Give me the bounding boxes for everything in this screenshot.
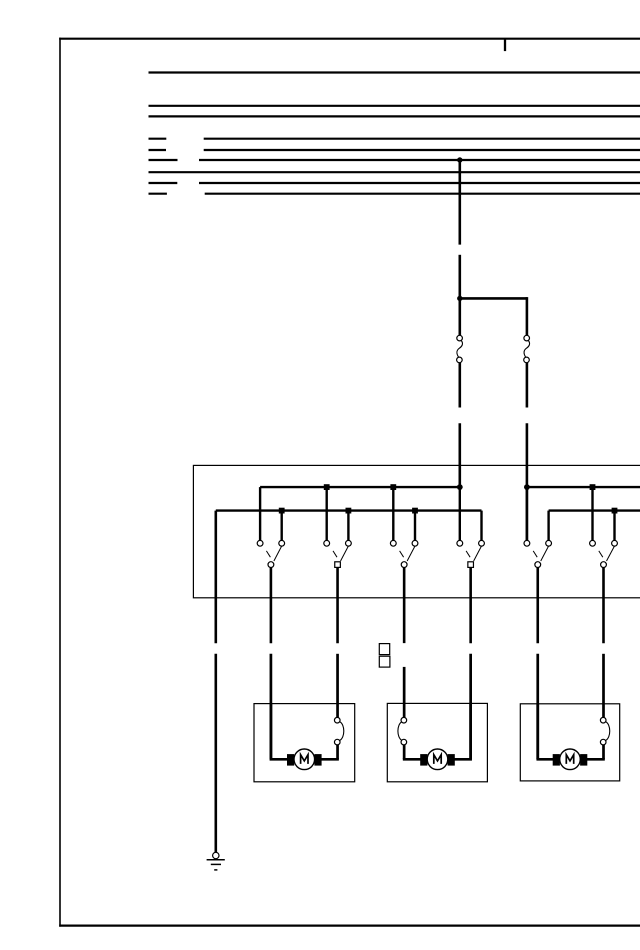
switch S5 throw line right <box>541 546 549 561</box>
wire to motor2 left (lower segment) <box>403 667 406 718</box>
master power window switch box <box>193 465 640 597</box>
wire ground return upper segment <box>215 511 218 644</box>
wire bus line 9 left stub <box>149 193 167 195</box>
switch S4 pole contact <box>468 562 474 568</box>
wire into switch box left feed <box>458 423 461 487</box>
switch S4 right contact stub <box>480 511 482 541</box>
node feed junction on right bus <box>524 484 530 490</box>
wire switch S5 pole output <box>536 568 539 644</box>
node feed branch junction <box>457 296 462 301</box>
wire bus line 9 <box>205 193 640 195</box>
thermal protector of motor M1 <box>334 717 343 744</box>
switch S3 throw line left <box>400 551 404 557</box>
node junction bus1 at switch S2 <box>324 484 330 490</box>
switch S4 left contact stub <box>459 487 461 540</box>
wire switch supply bus right (upper) <box>527 486 640 488</box>
connector C1 lower half <box>379 656 390 667</box>
circuit breaker CB2 <box>524 335 530 362</box>
wire motor M3 left horizontal <box>536 758 554 761</box>
wire switch supply bus left (upper) <box>260 486 460 488</box>
motor M3 body <box>560 749 581 770</box>
wire switch S6 pole output <box>602 568 605 644</box>
wire bus line 3 <box>149 115 640 117</box>
connector C1 upper half <box>379 644 389 655</box>
motor M2 left brush <box>420 754 427 766</box>
wire bus line 8 <box>199 182 640 184</box>
motor box M1 <box>254 704 355 782</box>
wire motor M3 right horizontal <box>586 758 605 761</box>
switch S4 throw line left <box>466 551 470 557</box>
motor M1 right brush <box>314 754 321 766</box>
wire motor M3 left lead <box>536 703 539 759</box>
switch S2 right contact stub <box>347 511 349 541</box>
wire to motor1 right (lower segment) <box>336 654 339 718</box>
motor M2 right brush <box>448 754 455 766</box>
switch S6 pole contact <box>601 562 607 568</box>
switch S2 throw line left <box>333 551 337 557</box>
node junction bus2 at switch S3 <box>412 508 418 514</box>
wire motor M2 left lead lower <box>403 745 406 759</box>
switch S6 left contact <box>590 540 596 546</box>
wire bus line 4 left stub <box>149 138 167 140</box>
wire motor M2 left horizontal <box>403 758 422 761</box>
page frame left border <box>59 38 61 927</box>
switch S4 throw line right <box>474 546 482 561</box>
node junction bus2 at switch S2 <box>346 508 352 514</box>
wire to motor1 left (lower segment) <box>270 654 273 759</box>
wire main feed upper segment <box>458 160 461 245</box>
wire motor M2 right horizontal <box>454 758 472 761</box>
switch S1 throw line right <box>274 546 282 561</box>
circuit breaker CB1 <box>457 335 463 362</box>
wire bus line 7 <box>149 171 640 173</box>
switch S6 throw line right <box>607 546 615 561</box>
switch S5 right contact <box>546 540 552 546</box>
wire motor M1 right horizontal <box>320 758 339 761</box>
node feed junction on bus1 <box>457 484 463 490</box>
switch S6 right contact <box>612 540 618 546</box>
wire bus line 8 left stub <box>149 182 178 184</box>
switch S1 pole contact <box>268 562 274 568</box>
switch S5 left contact stub <box>526 487 528 540</box>
switch S2 pole contact <box>335 562 341 568</box>
switch S1 throw line left <box>266 551 270 557</box>
wire to motor3 left (lower segment) <box>536 654 539 759</box>
wire bus line 2 <box>149 105 640 107</box>
motor box M3 <box>520 704 619 781</box>
wire motor M1 left horizontal <box>270 758 289 761</box>
wire motor M1 left lead <box>270 703 273 759</box>
motor box M2 <box>387 703 487 781</box>
switch S2 left contact stub <box>326 487 328 540</box>
motor M3 right brush <box>580 754 587 766</box>
switch S6 throw line left <box>599 551 603 557</box>
thermal protector of motor M2 <box>398 717 407 744</box>
wire bus line 5 <box>204 149 640 151</box>
wire below breaker CB1 <box>458 363 461 408</box>
wire switch S3 pole output <box>403 568 406 644</box>
switch S5 throw line left <box>533 551 537 557</box>
motor M1 label M <box>301 755 308 764</box>
switch S3 throw line right <box>407 546 415 561</box>
switch S1 right contact stub <box>281 511 283 541</box>
switch S1 right contact <box>279 540 285 546</box>
wire motor M1 right lead lower <box>336 745 339 759</box>
switch S4 left contact <box>457 540 463 546</box>
wire to motor3 right (lower segment) <box>602 654 605 718</box>
switch S3 pole contact <box>401 562 407 568</box>
wire left branch down to breaker <box>458 298 461 335</box>
node junction bus2 at switch S1 <box>279 508 285 514</box>
wire switch return bus right (lower) <box>549 509 640 511</box>
wire right branch down to breaker <box>526 297 529 335</box>
switch S5 pole contact <box>535 562 541 568</box>
wire bus line 6 left stub <box>149 159 178 161</box>
motor M1 left brush <box>287 754 294 766</box>
page frame top border <box>59 38 640 40</box>
switch S1 left contact stub <box>259 487 261 540</box>
wire switch S1 pole output <box>270 568 273 644</box>
switch S5 right contact stub <box>547 511 549 541</box>
motor M2 label M <box>434 755 441 764</box>
motor M2 body <box>427 749 448 770</box>
wire motor M2 right lead <box>469 703 472 759</box>
wire motor M3 right lead lower <box>602 745 605 759</box>
switch S2 throw line right <box>341 546 349 561</box>
node junction bus1 at switch S3 <box>390 484 396 490</box>
switch S1 left contact <box>257 540 263 546</box>
wire bus line 4 <box>204 138 640 140</box>
ground symbol <box>207 852 225 870</box>
switch S3 left contact <box>390 540 396 546</box>
switch S4 right contact <box>479 540 485 546</box>
motor M1 body <box>294 749 315 770</box>
wire switch S2 pole output <box>336 568 339 644</box>
page frame bottom border <box>59 924 640 926</box>
wire branch horizontal <box>460 297 527 300</box>
switch S3 right contact <box>412 540 418 546</box>
thermal protector of motor M3 <box>600 717 609 744</box>
switch S2 right contact <box>346 540 352 546</box>
wire below breaker CB2 <box>526 363 529 408</box>
wire into switch box right feed <box>526 423 529 540</box>
node junction bus4 at switch S6 <box>612 508 618 514</box>
switch S6 right contact stub <box>613 511 615 541</box>
motor M3 label M <box>566 755 573 764</box>
tick mark on top border <box>504 38 506 51</box>
node junction right bus at switch S6 <box>590 484 596 490</box>
switch S5 left contact <box>524 540 530 546</box>
wire bus line 5 left stub <box>149 149 167 151</box>
wire switch S4 pole output <box>469 568 472 644</box>
wire bus line 6 <box>199 159 640 161</box>
node feed tap junction on bus line 6 <box>457 157 462 162</box>
motor M3 left brush <box>553 754 560 766</box>
switch S3 right contact stub <box>414 511 416 541</box>
wire switch return bus left (lower) <box>216 509 482 511</box>
wire bus line 1 <box>149 71 640 73</box>
wire main feed lower segment <box>458 255 461 299</box>
switch S6 left contact stub <box>591 487 593 540</box>
switch S2 left contact <box>324 540 330 546</box>
wire ground return lower segment <box>215 654 218 852</box>
switch S3 left contact stub <box>392 487 394 540</box>
wire to motor2 right (lower segment) <box>469 654 472 759</box>
